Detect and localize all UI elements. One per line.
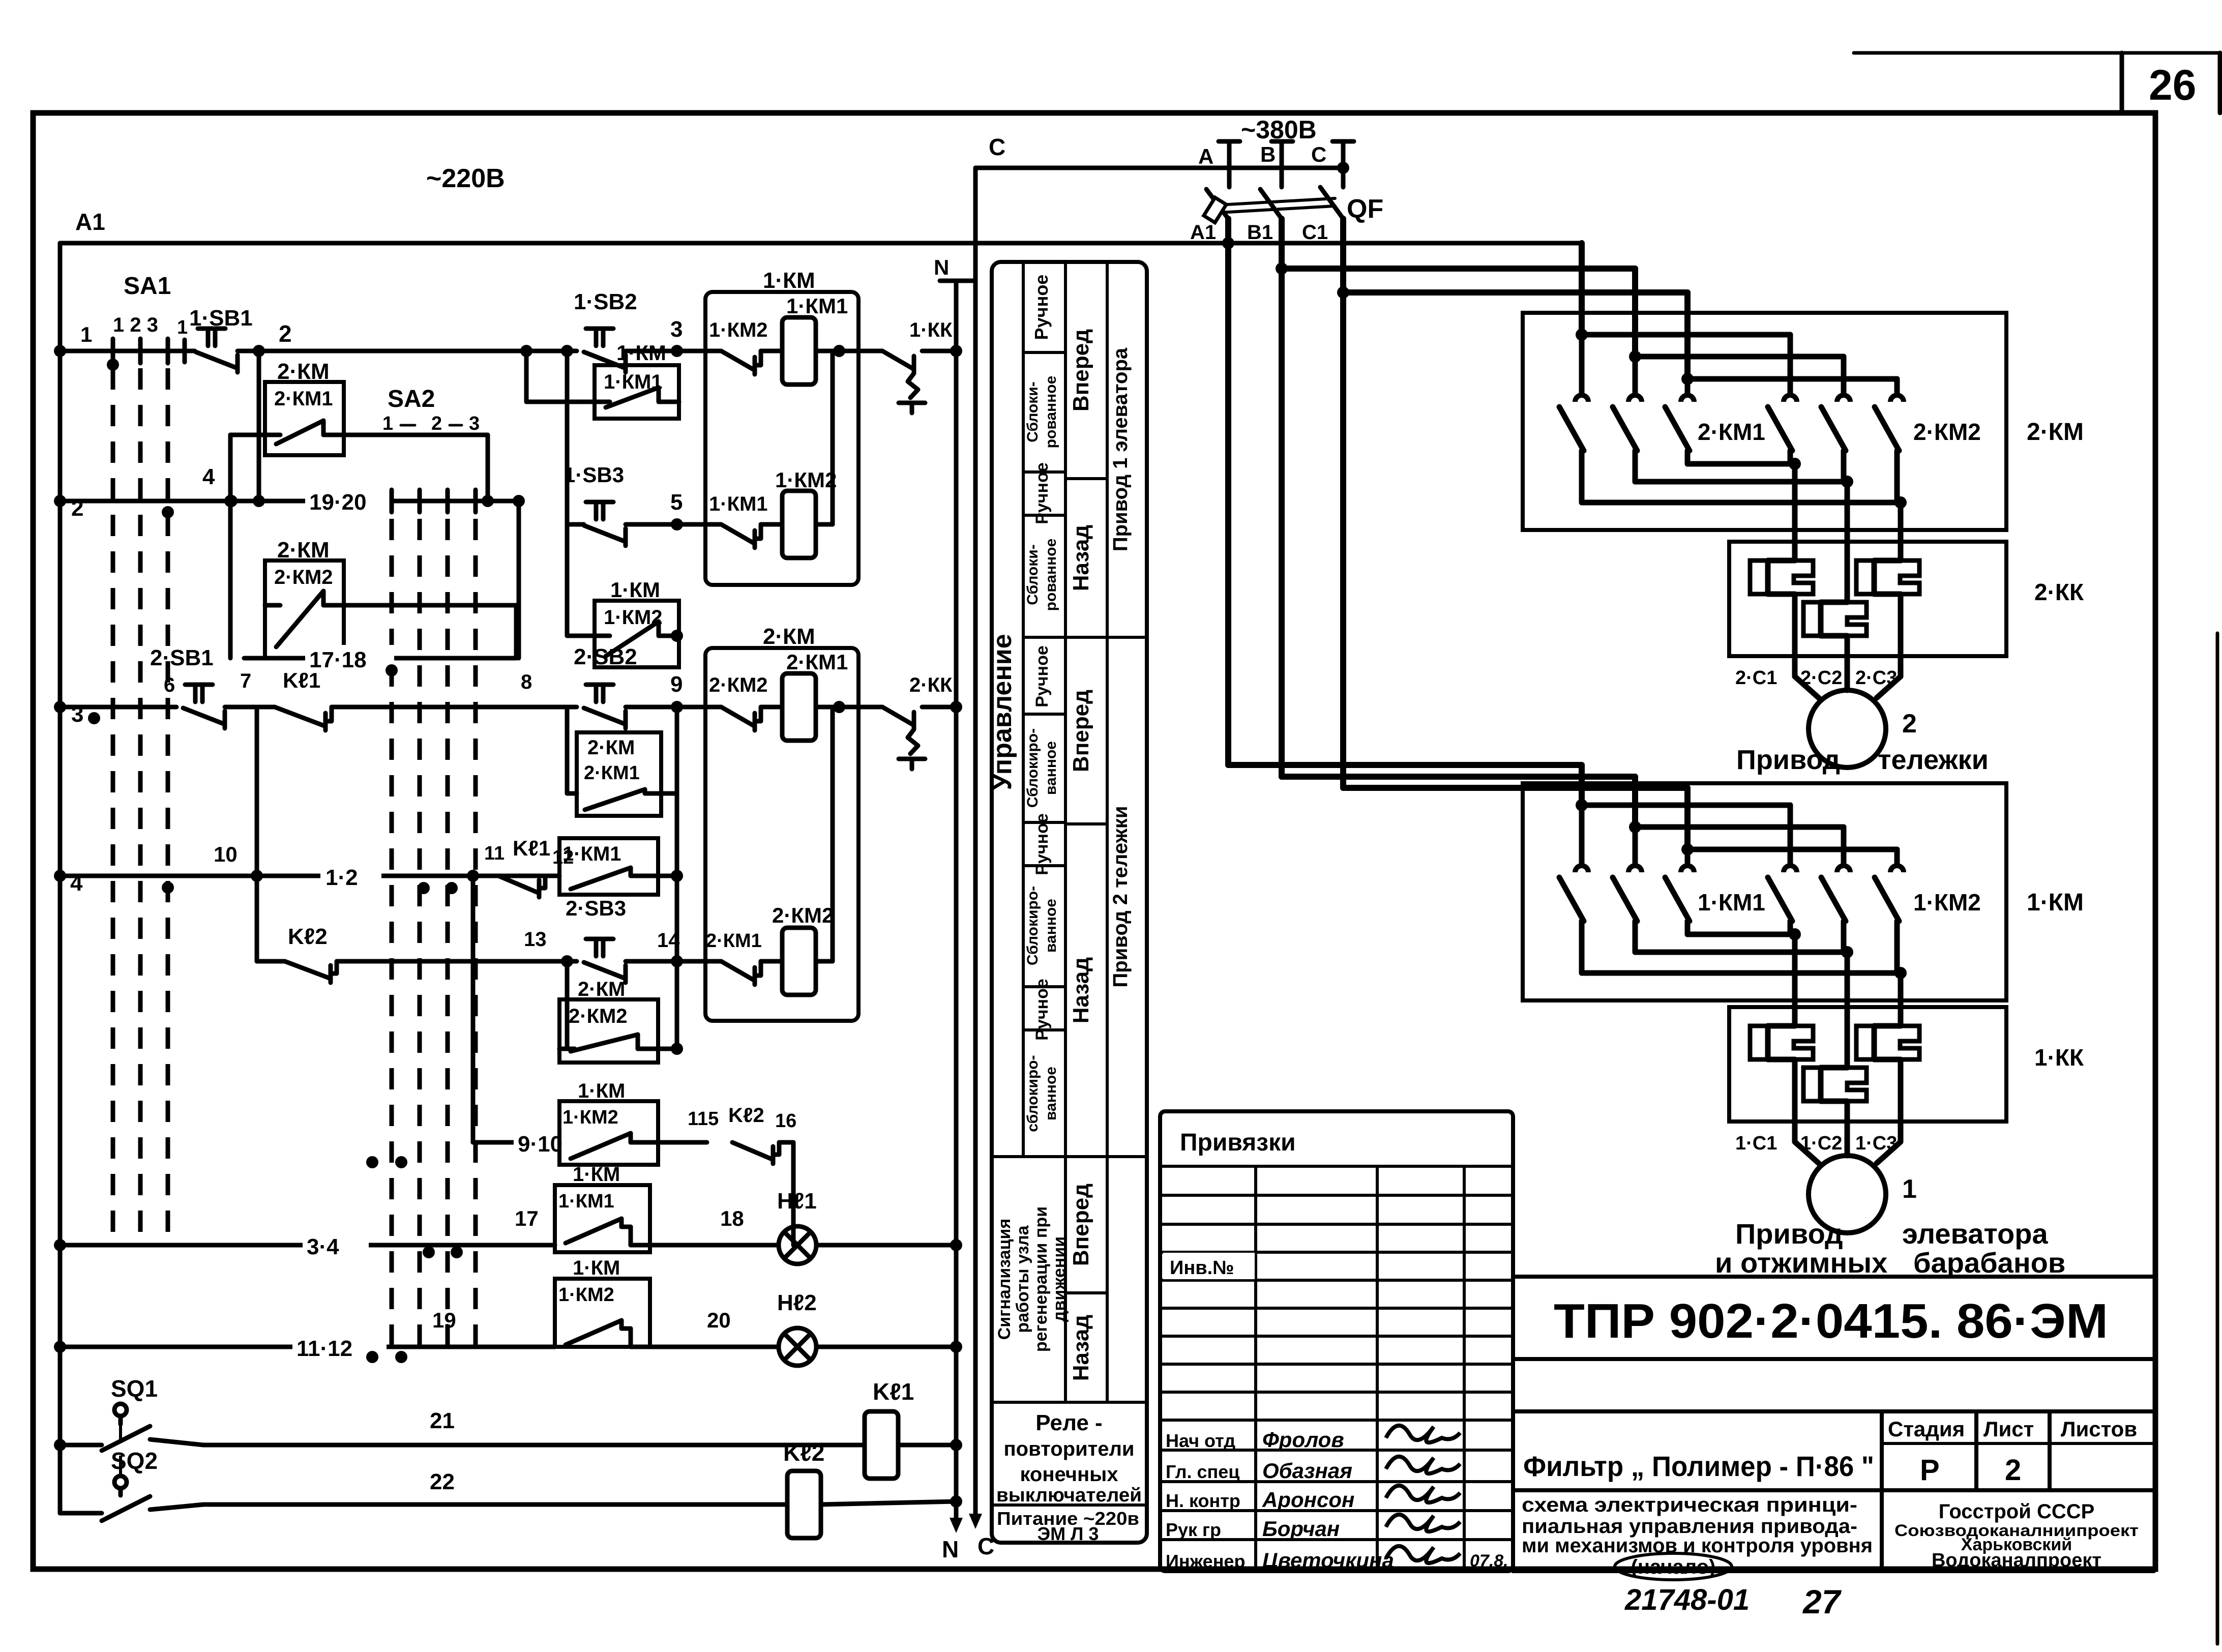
svg-text:1·КМ: 1·КМ <box>616 341 666 365</box>
svg-text:2·КК: 2·КК <box>2034 579 2084 605</box>
label rele-povtoriteli <box>996 1410 1142 1506</box>
wire: N bus <box>940 281 972 1518</box>
wire to N <box>922 345 962 357</box>
date 07.8 <box>1470 1551 1508 1571</box>
relay contact KL1 (rail3) <box>275 668 332 730</box>
label 1 (rail) <box>80 322 92 346</box>
svg-text:Ручное: Ручное <box>1032 979 1052 1041</box>
label privod elevatora <box>1715 1218 2065 1279</box>
svg-text:ТПР 902·2·0415. 86·ЭМ: ТПР 902·2·0415. 86·ЭМ <box>1554 1294 2108 1348</box>
svg-text:1·КМ1: 1·КМ1 <box>558 1191 614 1212</box>
svg-text:Аронсон: Аронсон <box>1262 1488 1354 1512</box>
svg-text:1·КМ1: 1·КМ1 <box>562 843 621 865</box>
wire rail 21 <box>150 1439 865 1445</box>
label ~380V <box>1241 115 1317 144</box>
svg-text:Ручное: Ручное <box>1031 275 1052 340</box>
label C1 (QF out) <box>1302 221 1328 244</box>
title filter polimer <box>1513 1450 1882 1490</box>
label 11 <box>484 843 505 864</box>
svg-text:Ручное: Ручное <box>1032 462 1052 524</box>
label 4 <box>202 464 215 489</box>
node 3 <box>670 317 683 357</box>
svg-text:А1: А1 <box>1190 221 1216 244</box>
contactor coil 1-KM1 <box>782 294 848 385</box>
title block outer lines <box>1513 1277 2154 1571</box>
wire rail 17-18 <box>244 501 519 658</box>
svg-text:В1: В1 <box>1247 221 1273 244</box>
wire rail 4 <box>60 876 559 894</box>
svg-text:А1: А1 <box>75 209 105 235</box>
node after coil 1-KM1 <box>833 345 845 357</box>
svg-text:2: 2 <box>2005 1454 2021 1487</box>
svg-text:N: N <box>934 255 949 279</box>
wire: left control bus <box>58 243 63 1513</box>
svg-text:21: 21 <box>430 1408 455 1433</box>
label Privyazki <box>1180 1129 1296 1156</box>
svg-text:Нач отд: Нач отд <box>1166 1430 1235 1451</box>
svg-text:1: 1 <box>382 413 393 434</box>
svg-text:Kℓ1: Kℓ1 <box>873 1378 914 1405</box>
privyazki horizontals <box>1160 1166 1513 1420</box>
svg-text:Обазная: Обазная <box>1262 1459 1352 1483</box>
contactor group box 2-KM <box>705 624 858 1021</box>
node after coil 2-KM1 <box>833 701 845 713</box>
labels col2 ruchnoe/sblok <box>1024 275 1059 1132</box>
aux contact box 1-KM2 (self-hold of 1-SB3) <box>595 578 679 667</box>
circuit breaker QF <box>1204 187 1383 224</box>
node on rail2 <box>162 495 525 518</box>
wire bypass 2-KM2 <box>344 605 516 658</box>
contact 1-KM1 (NC) <box>709 493 768 548</box>
relay contact KL2 (row13) <box>257 924 337 983</box>
svg-text:~220В: ~220В <box>426 164 505 193</box>
svg-text:10: 10 <box>214 842 238 866</box>
wire bypass D <box>567 707 677 793</box>
svg-text:2·КМ1: 2·КМ1 <box>706 930 762 952</box>
svg-text:элеватора: элеватора <box>1902 1218 2048 1250</box>
wire <box>839 705 882 710</box>
privyazki verticals <box>1256 1166 1464 1571</box>
svg-text:Листов: Листов <box>2061 1417 2137 1441</box>
svg-text:Kℓ1: Kℓ1 <box>283 668 320 692</box>
svg-text:ЭМ Л 3: ЭМ Л 3 <box>1038 1523 1099 1544</box>
svg-text:2: 2 <box>1902 709 1917 739</box>
label Inv No <box>1163 1253 1255 1279</box>
arrow N (bottom) <box>950 1518 963 1533</box>
svg-text:Фильтр „ Полимер - П·86 ʺ: Фильтр „ Полимер - П·86 ʺ <box>1523 1450 1874 1482</box>
svg-text:Назад: Назад <box>1069 957 1093 1024</box>
node 9 <box>670 672 683 713</box>
svg-text:Гл. спец: Гл. спец <box>1166 1461 1239 1482</box>
SA2 dashed column 3 <box>446 519 450 1357</box>
svg-text:5: 5 <box>670 490 683 515</box>
label B1 (QF out) <box>1247 221 1273 244</box>
svg-text:8: 8 <box>521 671 532 693</box>
handwritten archive number 21748-01 27 <box>1624 1583 1842 1620</box>
svg-text:Реле -: Реле - <box>1035 1410 1102 1435</box>
svg-text:SQ2: SQ2 <box>111 1448 158 1474</box>
node 2 <box>253 320 292 357</box>
table col4 cell line <box>1107 636 1147 639</box>
label 19-20 <box>305 487 392 515</box>
motor 2 (drive of trolley) <box>1795 663 1917 768</box>
thermal relay 1-KK <box>1729 995 2084 1154</box>
svg-text:7: 7 <box>240 670 251 692</box>
svg-text:3: 3 <box>469 413 480 434</box>
relay contact KL2 (rail 9-10) <box>728 1104 779 1164</box>
svg-text:N: N <box>942 1536 959 1562</box>
svg-text:Kℓ1: Kℓ1 <box>513 836 550 860</box>
aux contact box 2-KM2 (lower) <box>559 978 658 1063</box>
label 9-10 <box>514 1129 603 1157</box>
wire QF C1 vertical <box>1340 219 1346 788</box>
svg-text:2·SB2: 2·SB2 <box>574 644 637 669</box>
phase input C <box>1311 141 1354 187</box>
dots dashed cols 9-10 <box>366 1156 407 1168</box>
svg-text:2·КМ: 2·КМ <box>2027 419 2084 446</box>
svg-text:2: 2 <box>279 320 292 347</box>
wire rail 22 <box>150 1504 787 1510</box>
svg-text:1: 1 <box>1902 1174 1917 1204</box>
svg-text:6: 6 <box>164 674 175 696</box>
wire 1-KM feed A <box>1228 765 1582 805</box>
wire: 1-KM box left edge emphasis <box>0 0 1 1</box>
push button 2-SB1 <box>150 645 225 728</box>
wire: node7 drop <box>255 707 259 876</box>
svg-text:Инженер: Инженер <box>1166 1551 1245 1572</box>
svg-text:2·КМ1: 2·КМ1 <box>584 762 640 784</box>
svg-text:2·КМ: 2·КМ <box>587 736 635 759</box>
wire 9-10 end drop <box>779 1142 793 1245</box>
dots on SA2 cols rail4 <box>418 882 458 894</box>
svg-text:11: 11 <box>484 843 505 864</box>
contactor coil 2-KM1 <box>782 650 848 741</box>
relay contact KL1 (rail4) <box>498 836 550 897</box>
wire rail 2 <box>60 499 519 504</box>
contactor coil 2-KM2 <box>772 903 834 995</box>
label 19 <box>432 1308 456 1332</box>
contact 2-KM2 (NC) <box>709 674 768 730</box>
svg-text:Hℓ1: Hℓ1 <box>777 1189 817 1214</box>
wire <box>626 349 721 353</box>
SA2 dashed column 1 <box>390 519 394 1357</box>
limit switch SQ1 <box>54 1375 158 1451</box>
svg-text:4: 4 <box>202 464 215 489</box>
limit switch SQ2 <box>60 1419 158 1521</box>
svg-text:Назад: Назад <box>1069 525 1093 592</box>
svg-text:1·КМ2: 1·КМ2 <box>1913 889 1981 916</box>
contactor group box 1-KM <box>705 268 858 585</box>
svg-text:рованное: рованное <box>1043 539 1059 611</box>
svg-text:1·КМ: 1·КМ <box>610 578 660 602</box>
arrow C (bottom) <box>969 1514 982 1529</box>
svg-text:17: 17 <box>515 1206 539 1230</box>
relay coil KL2 <box>783 1439 962 1538</box>
svg-text:Ручное: Ручное <box>1032 645 1052 707</box>
dots dashed cols 3-4 <box>423 1246 463 1258</box>
svg-text:1·2: 1·2 <box>325 865 358 890</box>
wire: rail4 branch drop <box>467 870 479 1142</box>
label 12 <box>552 847 574 868</box>
node 5 <box>626 490 721 530</box>
wire <box>626 959 721 964</box>
aux contact box 2-KM2 (self-hold) <box>265 538 344 658</box>
junction bus/rail 11-12 <box>54 1341 66 1353</box>
aux contact box 2-KM1 (self-hold of 2-SB2) <box>577 732 661 816</box>
svg-text:1·КМ2: 1·КМ2 <box>558 1284 614 1306</box>
svg-text:1 2 3: 1 2 3 <box>113 314 158 336</box>
svg-text:1·КМ: 1·КМ <box>763 268 815 293</box>
contactor coil 1-KM2 <box>775 468 837 558</box>
label N (top) <box>934 255 949 279</box>
wire <box>761 349 782 353</box>
svg-text:2·SB3: 2·SB3 <box>566 896 626 920</box>
svg-text:Р: Р <box>1920 1454 1940 1487</box>
svg-text:1·КМ2: 1·КМ2 <box>709 319 768 341</box>
SA1 dashed column 2 <box>138 368 143 1241</box>
svg-text:2·КМ1: 2·КМ1 <box>786 650 848 674</box>
svg-text:2·КМ2: 2·КМ2 <box>772 903 834 927</box>
svg-text:Привязки: Привязки <box>1180 1129 1296 1156</box>
svg-text:Вперед: Вперед <box>1069 690 1093 772</box>
wire bypass 1-KM2 <box>567 524 683 642</box>
organization <box>1894 1500 2139 1571</box>
svg-text:Привод 1 элеватора: Привод 1 элеватора <box>1109 347 1132 551</box>
svg-text:27: 27 <box>1802 1583 1842 1620</box>
svg-text:(начало): (начало) <box>1631 1556 1716 1578</box>
svg-text:2·КМ: 2·КМ <box>578 978 625 1000</box>
wire 453 vertical <box>224 435 236 658</box>
svg-text:SA2: SA2 <box>388 386 435 412</box>
svg-text:115: 115 <box>688 1108 719 1130</box>
junction bus/rail1 <box>54 345 66 357</box>
aux contact box 1-KM1 (rail 3-4) <box>555 1163 721 1252</box>
svg-text:повторители: повторители <box>1003 1438 1134 1460</box>
svg-text:9·10: 9·10 <box>518 1132 562 1157</box>
wire rail 9-10 <box>473 1140 559 1145</box>
svg-text:выключателей: выключателей <box>996 1485 1142 1506</box>
svg-text:1·КМ1: 1·КМ1 <box>709 493 768 515</box>
labels col3 directions <box>1069 329 1093 1381</box>
svg-text:1: 1 <box>177 317 188 338</box>
label A1 (QF out) <box>1190 221 1216 244</box>
wire row13 <box>337 959 577 964</box>
svg-text:Ручное: Ручное <box>1032 813 1052 875</box>
svg-text:2·КМ2: 2·КМ2 <box>1913 419 1981 445</box>
wire rail 3 left <box>60 707 176 724</box>
wire to N <box>922 701 962 713</box>
push button 1-SB3 <box>564 463 626 546</box>
label 3-4 <box>303 1232 369 1259</box>
label 17 <box>515 1206 539 1230</box>
label 2 (rail) <box>71 496 83 521</box>
label A1 <box>75 209 105 235</box>
label 1 (SB1 terminal) <box>177 317 188 362</box>
wire <box>626 705 721 710</box>
label 18 <box>720 1206 744 1230</box>
wire: node10 drop <box>255 876 259 961</box>
svg-text:1·КК: 1·КК <box>909 319 953 341</box>
svg-text:Рук гр: Рук гр <box>1166 1519 1221 1540</box>
svg-text:Стадия: Стадия <box>1888 1417 1965 1441</box>
label 11-12 <box>292 1334 387 1361</box>
thermal relay 2-KK <box>1729 529 2084 689</box>
SA2 dashed column 4 <box>473 519 478 1357</box>
wire: coil 1-KM2 to node <box>831 351 835 524</box>
table col3 cell lines <box>1065 479 1107 1293</box>
wire <box>761 522 782 527</box>
svg-text:QF: QF <box>1347 194 1383 224</box>
wire: C bus <box>973 168 978 1514</box>
label 17-18 <box>305 645 398 676</box>
thermal contact 2-KK <box>882 674 953 769</box>
svg-text:Водоканалпроект: Водоканалпроект <box>1932 1550 2101 1571</box>
stadiya list listov header <box>1882 1411 2154 1571</box>
svg-text:1·КК: 1·КК <box>2034 1044 2084 1071</box>
wire rail 3-4 <box>60 1243 555 1248</box>
svg-text:07.8.: 07.8. <box>1470 1551 1508 1571</box>
labels col4 drives <box>1109 347 1132 987</box>
aux contact box 1-KM2 (rail 11-12) <box>555 1257 721 1347</box>
svg-text:Госстрой СССР: Госстрой СССР <box>1939 1500 2095 1523</box>
svg-text:Сблокиро-: Сблокиро- <box>1024 886 1041 965</box>
svg-text:SQ1: SQ1 <box>111 1375 158 1402</box>
label 16 <box>775 1110 796 1132</box>
wire bypass 2-KM1 <box>230 435 488 501</box>
svg-text:работы узла: работы узла <box>1013 1225 1032 1333</box>
wire C1 run <box>1337 286 1687 299</box>
junction bus/rail 3-4 <box>54 1239 66 1251</box>
svg-text:1·КМ: 1·КМ <box>578 1080 625 1102</box>
svg-text:тележки: тележки <box>1878 745 1989 775</box>
label signalizaciya <box>995 1206 1069 1352</box>
label N (bottom) <box>942 1536 959 1562</box>
thermal contact 1-KK <box>882 319 953 413</box>
svg-text:ванное: ванное <box>1043 741 1059 795</box>
wire bypass F <box>559 955 677 1049</box>
svg-text:3: 3 <box>670 317 683 342</box>
page number box 26 <box>2122 53 2220 113</box>
svg-text:1·КМ1: 1·КМ1 <box>1698 889 1765 916</box>
svg-text:2·КМ2: 2·КМ2 <box>569 1005 628 1027</box>
table strip horizontals <box>992 1157 1147 1505</box>
svg-text:2·КМ1: 2·КМ1 <box>1698 419 1765 445</box>
contact 2-KM1 (NC row13) <box>706 930 762 985</box>
top trim line <box>1854 51 2220 55</box>
svg-text:ванное: ванное <box>1043 899 1059 953</box>
svg-text:Цветочкина: Цветочкина <box>1262 1548 1394 1572</box>
aux contact box 1-KM1 (rail4) <box>559 838 683 895</box>
wire <box>839 349 882 353</box>
svg-text:1·КМ: 1·КМ <box>2027 889 2084 916</box>
switch SA2 <box>382 386 480 512</box>
label ~220V <box>426 164 505 193</box>
push button 1-SB1 <box>189 306 253 372</box>
label pitanie <box>997 1508 1139 1544</box>
push button 2-SB2 <box>574 644 637 728</box>
privyazki signature row lines <box>1160 1450 1513 1540</box>
node 7 <box>225 670 275 707</box>
list value 2 <box>2005 1454 2021 1487</box>
wire B1 drop to 2-KM <box>1632 269 1638 357</box>
svg-text:В: В <box>1260 142 1276 166</box>
wire QF A1 vertical <box>1225 219 1231 765</box>
svg-text:22: 22 <box>430 1469 455 1494</box>
svg-text:барабанов: барабанов <box>1913 1247 2065 1279</box>
svg-text:Сблокиро-: Сблокиро- <box>1024 728 1041 808</box>
svg-text:1·SB3: 1·SB3 <box>564 463 624 487</box>
svg-text:2·С1: 2·С1 <box>1735 667 1777 689</box>
svg-text:схема электрическая принци-: схема электрическая принци- <box>1522 1494 1857 1516</box>
svg-text:11·12: 11·12 <box>297 1336 352 1361</box>
svg-text:2·КМ2: 2·КМ2 <box>274 566 333 588</box>
svg-text:19: 19 <box>432 1308 456 1332</box>
svg-text:1·КМ2: 1·КМ2 <box>775 468 837 492</box>
junction bus/rail4 <box>54 870 66 882</box>
label 4 (rail) <box>70 871 83 896</box>
wire rail 1 mid <box>238 349 577 353</box>
table col2 cell lines <box>1023 352 1065 1030</box>
label C (bottom) <box>977 1533 994 1559</box>
lamp HL2 <box>650 1290 962 1366</box>
title description <box>1522 1494 1873 1580</box>
wire <box>761 959 782 964</box>
label 21 <box>430 1408 455 1433</box>
wire bypass 1-KM1 <box>520 345 595 402</box>
wire A1 drop to 2-KM <box>1579 243 1585 335</box>
privyazki signatures <box>1166 1426 1460 1572</box>
svg-text:19·20: 19·20 <box>309 490 367 515</box>
svg-text:С: С <box>989 134 1005 160</box>
svg-text:Kℓ2: Kℓ2 <box>288 924 328 949</box>
contact 1-KM2 (NC) <box>709 319 768 374</box>
svg-text:С: С <box>1311 142 1326 166</box>
svg-text:3·4: 3·4 <box>307 1234 339 1259</box>
svg-text:сблокиро-: сблокиро- <box>1024 1055 1041 1132</box>
svg-text:регенерации при: регенерации при <box>1031 1206 1051 1352</box>
svg-text:Сигнализация: Сигнализация <box>995 1219 1014 1340</box>
svg-text:21748-01: 21748-01 <box>1624 1583 1750 1616</box>
svg-text:Вперед: Вперед <box>1069 329 1093 411</box>
label 6 <box>164 674 175 696</box>
junction bus/rail2 <box>54 495 66 507</box>
svg-text:Фролов: Фролов <box>1262 1428 1344 1452</box>
svg-text:Hℓ2: Hℓ2 <box>777 1290 817 1315</box>
dots dashed cols 11-12 <box>366 1351 407 1363</box>
svg-text:Назад: Назад <box>1069 1315 1093 1381</box>
phase input B <box>1260 141 1293 187</box>
motor 1 (drive of elevator) <box>1795 1129 1917 1233</box>
svg-text:1: 1 <box>80 322 92 346</box>
svg-text:13: 13 <box>524 928 547 951</box>
svg-text:9: 9 <box>670 672 683 697</box>
node 10 <box>214 842 263 882</box>
svg-text:26: 26 <box>2149 61 2196 109</box>
push button 1-SB2 <box>574 289 637 372</box>
label 8 <box>521 671 532 693</box>
svg-text:2·КМ1: 2·КМ1 <box>274 388 333 410</box>
svg-text:2·КМ2: 2·КМ2 <box>709 674 768 696</box>
svg-text:Привод: Привод <box>1736 745 1840 775</box>
svg-text:20: 20 <box>707 1308 731 1332</box>
svg-text:1·КМ2: 1·КМ2 <box>562 1107 618 1128</box>
label 22 <box>430 1469 455 1494</box>
title drawing code TPR 902-2-0415.86-EM <box>1554 1294 2108 1348</box>
wire: C feed to phase C <box>975 162 1349 174</box>
stadiya value P <box>1920 1454 1940 1487</box>
wire node2 drop <box>253 351 265 507</box>
contactor contacts group 1-KM (1-KM1, 1-KM2) <box>1523 783 2084 1013</box>
